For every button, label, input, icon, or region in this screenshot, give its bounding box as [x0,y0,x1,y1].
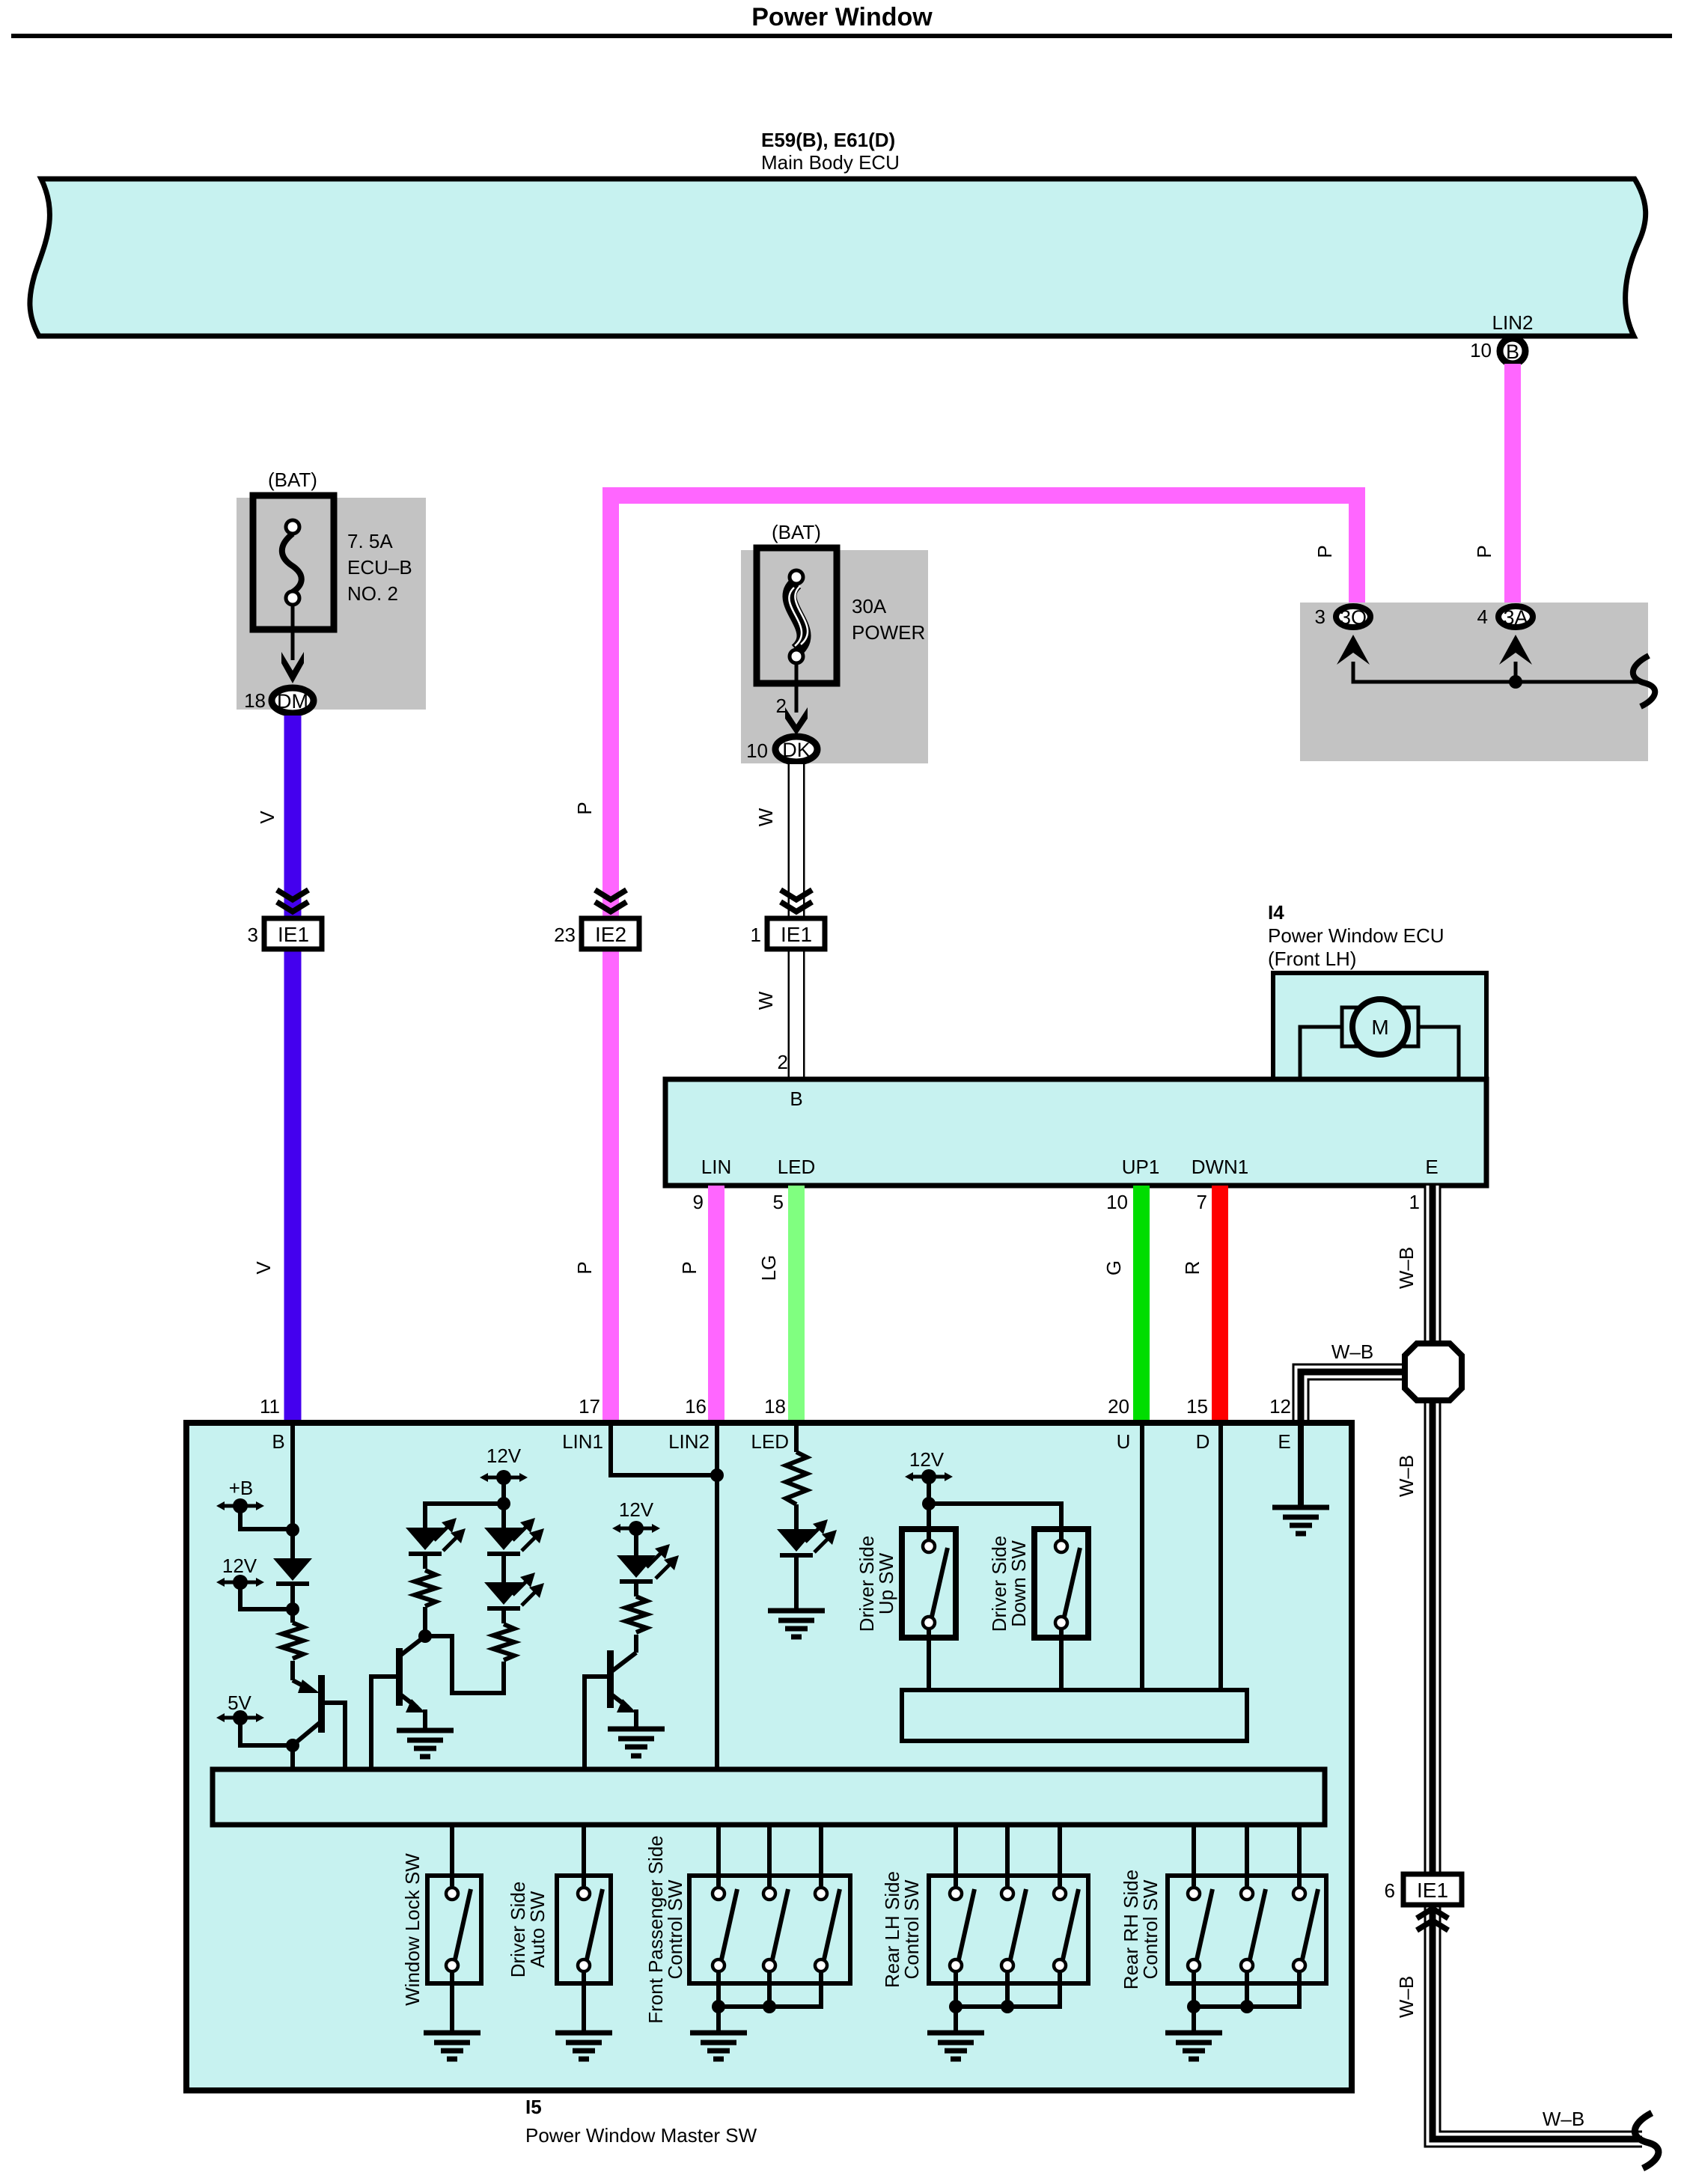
svg-text:D: D [1196,1430,1210,1453]
svg-text:10: 10 [1106,1191,1128,1213]
pin circle B (pin 10) of Main Body ECU [1500,338,1525,364]
switch Driver Side Up SW [902,1529,956,1638]
svg-text:Main Body ECU: Main Body ECU [761,151,900,174]
svg-text:W–B: W–B [1395,1247,1418,1289]
logic bus small [902,1690,1247,1741]
svg-text:W–B: W–B [1331,1340,1373,1363]
node RRH common 1 [1187,2000,1201,2013]
svg-text:I5: I5 [525,2096,542,2118]
svg-text:30A: 30A [852,595,887,617]
terminal 12V third [612,1498,660,1536]
svg-text:R: R [1181,1261,1203,1275]
svg-text:12V: 12V [619,1498,654,1521]
wire 12V to LED4 [634,1528,638,1555]
wire R4 to transistor Q3 [634,1635,638,1653]
wire U internal [1140,1423,1144,1690]
svg-text:P: P [1314,545,1336,558]
switch Rear LH Side Control SW [929,1876,1088,1983]
fuse 1 element [282,520,302,605]
svg-text:2: 2 [776,695,787,717]
ground G4 [1272,1507,1329,1534]
svg-text:P: P [573,1261,596,1274]
svg-text:ECU–B: ECU–B [347,556,412,579]
label Rear RH Side Control SW [1120,1870,1162,1989]
wire W-B from ECU pin E (pin 1) down and right to break [1433,1186,1642,2139]
wire LED5 to ground [794,1558,799,1609]
switch Window Lock SW [427,1876,481,1983]
arrow into DM [281,652,304,683]
svg-text:1: 1 [1409,1191,1420,1213]
ground G3 [608,1729,665,1756]
svg-text:12: 12 [1269,1395,1291,1418]
transistor Q3 [585,1650,636,1769]
Main Body ECU box [30,179,1646,336]
wire W-B from master pin 12 to octagon joint [1301,1372,1406,1424]
label 30A POWER [852,595,925,644]
ground G2 [397,1730,454,1757]
wire diode to resistor [290,1584,295,1623]
svg-text:LED: LED [778,1156,816,1178]
connector IE1 pin 3 [264,918,322,949]
Power Window ECU main box [665,1079,1486,1186]
wire LED2 to LED3 [501,1556,506,1582]
svg-text:W–B: W–B [1543,2108,1584,2130]
wire inside gray block [1353,662,1639,682]
label Rear LH Side Control SW [881,1871,923,1988]
svg-text:LIN2: LIN2 [668,1430,710,1453]
wire V violet from DM to master switch pin 11 [284,716,302,1423]
chevron arrows up into IE1 pin 6 [1417,1909,1448,1930]
svg-text:NO. 2: NO. 2 [347,582,398,605]
svg-text:Control SW: Control SW [1139,1879,1162,1979]
wire node to Down SW [929,1504,1061,1540]
connector IE1 pin 6 [1403,1874,1462,1905]
main bus bar [213,1769,1325,1825]
switch Front Passenger Side Control SW [689,1876,850,1983]
svg-text:LG: LG [757,1255,780,1281]
ground G1 [768,1611,825,1637]
LED LED4 [617,1544,679,1584]
node LIN junction [710,1468,724,1482]
resistor R3 [493,1624,514,1660]
wire +B to B node [240,1506,293,1529]
terminal 12V fourth [905,1448,953,1484]
ground G5 [424,2033,481,2059]
wavy break bottom right [1635,2113,1659,2168]
Power Window ECU motor compartment box [1273,973,1486,1079]
wire bus to Window Lock SW [450,1825,454,1886]
svg-text:P: P [573,802,596,814]
wire D internal [1218,1423,1223,1690]
node 12V second [497,1497,510,1510]
svg-text:17: 17 [579,1395,600,1418]
svg-text:(BAT): (BAT) [772,521,821,543]
svg-text:3O: 3O [1340,606,1367,629]
svg-text:(BAT): (BAT) [268,469,317,491]
wire Up SW to logic bus [927,1630,931,1690]
arrow up into 3A [1499,635,1532,665]
svg-text:1: 1 [751,924,761,946]
svg-text:6: 6 [1385,1879,1395,1902]
wire 5V to Q1 collector node [240,1718,293,1745]
node RLH common 2 [1001,2000,1014,2013]
ground G9 [1165,2033,1222,2059]
svg-text:Control SW: Control SW [900,1879,923,1979]
wire node to bus [290,1745,295,1769]
svg-text:20: 20 [1108,1395,1129,1418]
svg-text:IE1: IE1 [1417,1879,1448,1902]
wire W white from DK to Power Window ECU pin B [788,764,805,1079]
svg-text:18: 18 [764,1395,786,1418]
LED LED3 [484,1573,544,1611]
wire bus to Driver Side Auto SW [582,1825,586,1886]
svg-text:IE2: IE2 [595,923,626,946]
svg-text:Power Window: Power Window [751,3,933,31]
wire R3 to Q2 collector node [425,1636,504,1693]
connector IE2 pin 23 [582,918,639,949]
connector oval DK (pin 10) [775,736,817,762]
label Front Passenger Side Control SW [644,1835,686,2023]
svg-text:10: 10 [746,739,768,762]
svg-text:IE1: IE1 [278,923,309,946]
wavy break right of gray block [1633,656,1655,707]
chevron arrows into IE1 pin 1 [781,890,812,912]
svg-text:3A: 3A [1503,606,1528,629]
wires bus to Front Passenger SW [719,1825,821,1886]
svg-text:12V: 12V [222,1555,257,1577]
svg-text:15: 15 [1186,1395,1208,1418]
wire E internal to ground [1298,1424,1304,1506]
svg-text:Down SW: Down SW [1007,1540,1030,1627]
wires Rear RH SW commoning [1194,1973,1299,2031]
node 12V fourth [922,1497,936,1510]
LED LED2 [484,1518,544,1556]
wire Down SW to logic bus [1059,1630,1064,1690]
switch Driver Side Auto SW [557,1876,611,1983]
gray block right connector area [1300,603,1648,761]
arrow up into 3O [1337,635,1370,665]
wire LIN1 internal [611,1423,717,1475]
wire LED pin internal [794,1423,799,1452]
terminal +B [216,1477,264,1513]
svg-text:4: 4 [1477,606,1488,628]
svg-text:DM: DM [277,690,308,713]
svg-text:(Front LH): (Front LH) [1268,948,1356,970]
svg-text:5: 5 [773,1191,784,1213]
svg-text:2: 2 [778,1051,788,1073]
svg-text:E59(B), E61(D): E59(B), E61(D) [761,129,895,151]
svg-text:7: 7 [1197,1191,1207,1213]
ground G6 [555,2033,612,2059]
svg-text:I4: I4 [1268,901,1284,924]
wire fuse1 to DM [291,606,295,660]
svg-text:B: B [1506,341,1519,363]
title Power Window [751,3,933,31]
svg-text:LED: LED [751,1430,789,1453]
transistor Q1 [293,1675,345,1769]
svg-text:B: B [790,1088,802,1110]
terminal 12V first [216,1555,264,1590]
wire LED4 to resistor R4 [634,1584,638,1596]
resistor R5 [786,1452,807,1504]
svg-text:UP1: UP1 [1122,1156,1160,1178]
connector oval 3O (pin 3) [1336,606,1370,629]
switch Rear RH Side Control SW [1168,1876,1326,1983]
ground G7 [690,2033,747,2059]
resistor R2 [415,1570,436,1606]
wire LIN2 internal [715,1423,719,1769]
node B junction [286,1523,299,1537]
svg-text:B: B [272,1430,284,1453]
svg-text:W–B: W–B [1395,1455,1418,1497]
fuse ECU-B NO.2 body [253,495,334,629]
Power Window Master SW box [186,1423,1352,2090]
resistor R1 [282,1623,303,1659]
svg-text:3: 3 [1315,606,1325,628]
svg-text:11: 11 [260,1395,280,1418]
arrow into DK [785,707,808,735]
connector oval DM (pin 18) [272,688,314,713]
svg-text:M: M [1371,1016,1388,1039]
svg-text:G: G [1102,1260,1125,1275]
svg-text:W: W [754,808,777,826]
svg-text:U: U [1117,1430,1131,1453]
resistor R4 [626,1596,647,1632]
svg-text:3: 3 [248,924,258,946]
svg-text:W: W [754,991,777,1010]
svg-text:LIN2: LIN2 [1492,311,1534,334]
wire P pink from pin B down to connector 3A [1504,364,1521,604]
node Q1 collector [286,1739,299,1752]
svg-text:23: 23 [554,924,576,946]
wire Window Lock SW to ground [450,1973,454,2031]
label Driver Side Auto SW [507,1882,549,1978]
wires Front Passenger SW commoning [719,1973,821,2031]
svg-text:Power Window ECU: Power Window ECU [1268,924,1444,947]
wire 12V to Up SW [927,1477,931,1540]
wire R2 to Q2 collector node [423,1607,427,1636]
svg-text:DWN1: DWN1 [1192,1156,1249,1178]
wire 12V to below diode [240,1582,293,1609]
wire P pink from IE2 up and over to connector 3O [611,495,1357,1423]
svg-text:DK: DK [782,739,811,761]
label Driver Side Down SW [988,1536,1030,1632]
svg-text:V: V [256,811,278,824]
svg-text:Auto SW: Auto SW [526,1891,549,1968]
svg-text:Control SW: Control SW [664,1879,686,1979]
label Driver Side Up SW [855,1536,897,1632]
node Q2 collector [418,1629,432,1643]
label 7.5A ECU-B NO.2 [347,530,412,605]
motor wires [1300,1027,1459,1078]
junction dot at 3A drop [1509,675,1522,689]
wire Driver Side Auto SW to ground [582,1973,586,2031]
node FP common 1 [712,2000,725,2013]
terminal 12V second [480,1445,528,1485]
ground G8 [927,2033,984,2059]
wire fuse2 to DK [795,665,799,713]
chevron arrows into IE1 pin 3 [277,890,308,912]
transistor Q2 [371,1636,425,1769]
terminal 5V [216,1692,264,1725]
node below diode [286,1602,299,1616]
chevron arrows into IE2 [595,890,626,912]
fuse 2 element [789,570,808,663]
wire 12V down to node [501,1477,506,1528]
node RRH common 2 [1240,2000,1254,2013]
svg-text:18: 18 [244,689,266,712]
wires bus to Rear LH SW [956,1825,1060,1886]
wire B internal [290,1423,295,1558]
svg-text:W–B: W–B [1395,1976,1418,2018]
svg-text:E: E [1425,1156,1438,1178]
svg-text:POWER: POWER [852,621,925,644]
svg-text:12V: 12V [909,1448,945,1471]
connector IE1 pin 1 [767,918,825,949]
svg-text:Window Lock SW: Window Lock SW [401,1853,424,2006]
svg-text:P: P [678,1261,701,1274]
wire R red DWN1 (pin 7) to master D (pin 15) [1212,1186,1228,1423]
switch Driver Side Down SW [1034,1529,1088,1638]
svg-text:9: 9 [693,1191,704,1213]
diode D1 [273,1558,312,1586]
wire G green UP1 (pin 10) to master U (pin 20) [1133,1186,1150,1423]
svg-text:+B: +B [229,1477,254,1499]
wire Q2 emitter to ground [423,1709,427,1729]
wire resistor to transistor Q1 [290,1661,295,1680]
svg-text:E: E [1278,1430,1290,1453]
wire LED3 to resistor R3 [501,1611,506,1623]
wire LG light green LED (pin 5) to master LED (pin 18) [788,1186,805,1423]
wires bus to Rear RH SW [1194,1825,1299,1886]
node FP common 2 [763,2000,776,2013]
wire Q3 emitter to ground [634,1709,638,1727]
wire R5 to LED5 [794,1504,799,1529]
svg-text:Up SW: Up SW [875,1552,897,1614]
wire node to LED2 branch [425,1504,504,1528]
gray block around fuse POWER [741,550,928,763]
svg-text:12V: 12V [486,1445,522,1467]
node RLH common 1 [949,2000,962,2013]
wires Rear LH SW commoning [956,1973,1060,2031]
svg-text:7. 5A: 7. 5A [347,530,393,552]
LED LED5 [777,1519,837,1558]
svg-text:Power Window Master SW: Power Window Master SW [525,2124,757,2147]
svg-text:IE1: IE1 [781,923,812,946]
svg-text:P: P [1473,545,1495,558]
svg-text:16: 16 [685,1395,707,1418]
connector oval 3A (pin 4) [1498,606,1533,629]
fuse POWER body [757,548,837,683]
motor M [1342,999,1418,1055]
svg-text:V: V [252,1261,275,1275]
gray block around fuse ECU-B NO.2 [237,498,426,710]
svg-text:LIN: LIN [701,1156,731,1178]
svg-text:10: 10 [1470,339,1492,362]
wire P pink LIN (pin 9) to master LIN2 (pin 16) [708,1186,724,1423]
title rule [11,34,1672,38]
octagon joint connector [1405,1343,1462,1400]
wire LED1 to resistor R2 [423,1556,427,1569]
LED LED1 [406,1518,466,1556]
svg-text:LIN1: LIN1 [562,1430,603,1453]
